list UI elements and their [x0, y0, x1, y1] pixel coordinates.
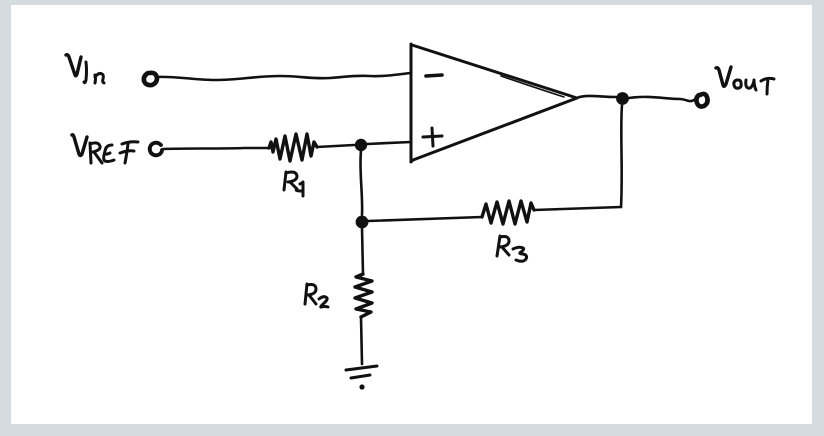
wire node A to op-amp non-inverting input	[367, 142, 411, 144]
wire Vin to op-amp inverting input	[157, 73, 411, 80]
wire node B down feedback	[621, 105, 622, 207]
node A junction dot	[355, 139, 367, 151]
label VREF	[72, 135, 138, 163]
label R1	[284, 172, 303, 196]
wire node C to R2	[362, 228, 363, 274]
wire R2 to ground	[361, 317, 362, 364]
wire op-amp output to node B	[577, 96, 616, 98]
label R2	[305, 284, 328, 307]
terminal Vin input	[144, 73, 157, 85]
resistor R1	[269, 134, 317, 161]
label VOUT	[716, 67, 774, 94]
wire VREF to R1	[163, 148, 269, 149]
label Vin	[66, 55, 104, 83]
terminal VOUT output	[696, 94, 707, 107]
wire node B to output terminal	[629, 97, 694, 101]
wire R1 to node A	[317, 145, 354, 147]
node C junction dot	[356, 216, 369, 229]
resistor R3	[482, 201, 534, 224]
wire feedback horizontal to R3	[534, 207, 621, 210]
op-amp plus input sign	[423, 128, 442, 146]
wire R3 to node C	[368, 217, 482, 221]
wire node A down to node C	[360, 151, 362, 215]
label R3	[497, 236, 527, 261]
resistor R2	[355, 274, 372, 317]
op-amp minus input sign	[426, 75, 442, 76]
op-amp U1	[411, 44, 577, 162]
node B junction dot	[616, 92, 629, 105]
ground	[346, 366, 377, 390]
terminal VREF input	[150, 143, 162, 156]
